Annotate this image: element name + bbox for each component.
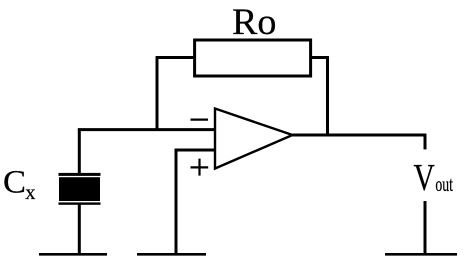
op-amp U1 [215,109,293,169]
svg-text:x: x [25,182,35,204]
capacitor Cx body [59,177,100,201]
wire: feedback right vertical [326,56,329,136]
wire: Vout lower vertical [424,201,427,254]
resistor Ro [195,40,311,76]
wire: output stub down [424,134,427,149]
svg-text:C: C [3,164,26,200]
wire: output horizontal [293,134,427,137]
op-amp minus sign [191,118,209,120]
svg-text:V: V [414,157,436,199]
wire: capacitor bottom vertical [78,204,81,254]
ground (capacitor) [39,253,107,256]
ground (Vout) [385,253,457,256]
svg-text:out: out [435,172,453,196]
wire: Ro right horizontal [310,56,329,59]
ground (non-inverting input) [137,253,206,256]
capacitor Cx bottom plate [59,202,101,204]
wire: non-inverting input vertical [175,149,178,254]
svg-text:Ro: Ro [232,2,277,43]
wire: non-inverting input horizontal [175,149,216,152]
capacitor Cx top plate [59,173,101,176]
wire: feedback top horizontal (left of Ro) [156,56,196,59]
wire: capacitor top vertical [78,128,81,173]
wire: inverting input horizontal (cap top to op-amp) [78,128,216,131]
wire: feedback left vertical [156,56,159,130]
op-amp plus sign [191,159,209,176]
